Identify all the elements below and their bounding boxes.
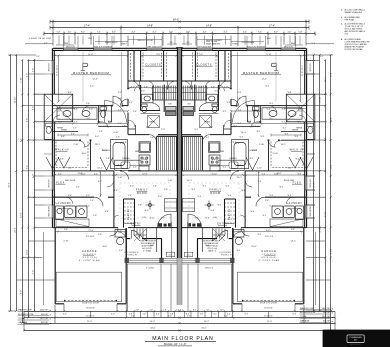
svg-text:MASTER BEDROOM: MASTER BEDROOM (73, 71, 110, 75)
svg-text:13'-10": 13'-10" (14, 96, 16, 103)
svg-text:WALK-IN: WALK-IN (290, 149, 304, 152)
svg-text:10'-4": 10'-4" (150, 321, 156, 323)
svg-text:WALK-IN: WALK-IN (55, 149, 69, 152)
svg-text:7'-10": 7'-10" (324, 77, 326, 83)
svg-text:20'-2": 20'-2" (14, 227, 16, 233)
svg-text:7'-2": 7'-2" (26, 165, 28, 170)
svg-text:16'-0": 16'-0" (102, 246, 107, 248)
svg-text:5'-4": 5'-4" (131, 315, 135, 317)
svg-text:1'-6": 1'-6" (156, 86, 160, 88)
svg-text:9'-0": 9'-0" (118, 165, 122, 167)
notes top right (341, 8, 370, 51)
label underlines (56, 66, 303, 255)
svg-text:PANTRY: PANTRY (228, 208, 231, 220)
svg-text:CLOSETS: CLOSETS (145, 62, 161, 66)
svg-text:3'-0": 3'-0" (257, 126, 261, 128)
svg-text:◄: ◄ (49, 309, 51, 312)
svg-text:PER PLAN: PER PLAN (345, 18, 355, 21)
svg-text:14'-8": 14'-8" (147, 25, 153, 27)
svg-text:1087 SF: 1087 SF (40, 310, 49, 312)
svg-text:16'x8' O.H. DOOR: 16'x8' O.H. DOOR (260, 302, 277, 304)
svg-text:TOTAL: TOTAL (18, 317, 26, 320)
svg-text:17'-4": 17'-4" (269, 25, 275, 27)
garage door labels (82, 302, 277, 309)
svg-text:16'-8 1/4": 16'-8 1/4" (86, 308, 95, 310)
svg-text:10'-0": 10'-0" (26, 249, 28, 255)
svg-text:5'-0": 5'-0" (168, 86, 172, 88)
svg-text:34'-0": 34'-0" (150, 327, 156, 329)
svg-text:5'-8": 5'-8" (56, 31, 60, 33)
svg-text:2'-0": 2'-0" (186, 31, 190, 33)
svg-text:2'-6": 2'-6" (265, 200, 269, 202)
window labels top (29, 38, 294, 49)
svg-text:2'-8": 2'-8" (146, 127, 150, 129)
svg-text:NOTED PER DETAIL: NOTED PER DETAIL (345, 48, 363, 51)
svg-text:4'-2": 4'-2" (202, 31, 206, 33)
svg-text:16'-8 1/2": 16'-8 1/2" (86, 315, 95, 317)
svg-text:3'-0": 3'-0" (98, 126, 102, 128)
svg-text:8'-4": 8'-4" (324, 138, 326, 143)
svg-text:2'-0": 2'-0" (169, 31, 173, 33)
left dim columns (8, 54, 55, 324)
svg-text:1470 SF: 1470 SF (40, 318, 49, 320)
svg-text:13'-10": 13'-10" (318, 97, 320, 104)
svg-text:6'-8": 6'-8" (26, 118, 28, 123)
svg-text:12'-4": 12'-4" (92, 78, 97, 80)
svg-text:7'-2": 7'-2" (329, 165, 331, 170)
svg-text:5'-0": 5'-0" (187, 86, 191, 88)
svg-text:1470 SF: 1470 SF (322, 316, 331, 318)
svg-text:9'-0": 9'-0" (237, 165, 241, 167)
bottom left table (18, 309, 49, 325)
svg-text:2'-8": 2'-8" (211, 86, 215, 88)
svg-text:12'-0": 12'-0" (20, 212, 22, 218)
svg-text:5'-0": 5'-0" (131, 86, 135, 88)
svg-text:21'-0": 21'-0" (267, 321, 273, 323)
svg-text:16'x8' O.H. DOOR: 16'x8' O.H. DOOR (82, 302, 99, 304)
svg-text:PORCH: PORCH (126, 254, 137, 256)
svg-text:11'-6": 11'-6" (276, 173, 281, 175)
black title block (323, 330, 390, 347)
svg-text:64'-0": 64'-0" (173, 18, 179, 21)
left rotated labels (8, 68, 34, 295)
svg-text:8'-0": 8'-0" (81, 31, 85, 33)
svg-text:20'-2": 20'-2" (318, 227, 320, 233)
room labels (55, 62, 303, 261)
right dim columns (306, 54, 333, 331)
svg-text:3050 S.H. EGRESS: 3050 S.H. EGRESS (94, 46, 113, 48)
svg-text:5'-0": 5'-0" (329, 73, 331, 78)
svg-text:34'-0": 34'-0" (312, 182, 314, 188)
left unit (23, 20, 181, 332)
svg-text:(21'8 CLG): (21'8 CLG) (261, 257, 277, 259)
svg-text:16'-8 1/2": 16'-8 1/2" (264, 315, 273, 317)
svg-text:DW: DW (212, 159, 215, 161)
svg-text:FLANAGAN: FLANAGAN (350, 336, 362, 339)
title (145, 336, 216, 346)
svg-text:MAIN FLOOR PLAN: MAIN FLOOR PLAN (152, 336, 214, 342)
svg-text:STAIR LANDING: STAIR LANDING (206, 42, 221, 45)
svg-text:DN: DN (214, 217, 217, 219)
svg-text:5'-4": 5'-4" (224, 315, 228, 317)
svg-text:GARAGE: GARAGE (82, 250, 98, 253)
svg-text:GARAGE: GARAGE (261, 250, 277, 253)
svg-text:4" CONC SLAB: 4" CONC SLAB (258, 259, 279, 262)
svg-text:34'-0": 34'-0" (201, 327, 207, 329)
svg-text:4'-0": 4'-0" (287, 31, 291, 33)
svg-text:3050 S.H. EGRESS: 3050 S.H. EGRESS (247, 46, 266, 48)
svg-text:11'-6": 11'-6" (77, 173, 82, 175)
svg-text:◄: ◄ (49, 313, 51, 316)
svg-text:GARAGE: GARAGE (18, 321, 28, 324)
svg-text:BONUS ROOM: BONUS ROOM (18, 314, 33, 316)
svg-text:◄: ◄ (331, 316, 333, 319)
svg-text:445 SF: 445 SF (323, 320, 331, 322)
svg-text:◄: ◄ (331, 320, 333, 323)
svg-text:4.: 4. (341, 38, 343, 41)
svg-text:OPT 2050 S.H.: OPT 2050 S.H. (198, 46, 212, 48)
svg-text:MAIN FLOOR: MAIN FLOOR (18, 309, 32, 312)
svg-text:FLEX: FLEX (56, 180, 65, 184)
svg-text:MASTER BEDROOM: MASTER BEDROOM (243, 71, 280, 75)
svg-text:LAUNDRY: LAUNDRY (56, 202, 72, 205)
svg-text:3'-6": 3'-6" (32, 106, 34, 111)
svg-text:2850 S.H.: 2850 S.H. (284, 46, 294, 48)
svg-text:14'-8": 14'-8" (206, 25, 212, 27)
svg-text:7'-4": 7'-4" (258, 31, 262, 33)
svg-text:4 3/4x11 7/8 LVL HDR: 4 3/4x11 7/8 LVL HDR (29, 38, 52, 40)
svg-text:16'-8 1/4": 16'-8 1/4" (264, 308, 273, 310)
svg-text:6'-8": 6'-8" (329, 118, 331, 123)
svg-text:445 SF: 445 SF (41, 322, 49, 324)
svg-text:4'-2": 4'-2" (152, 31, 156, 33)
svg-text:LAUNDRY: LAUNDRY (287, 202, 303, 205)
svg-text:(21'8 CLG): (21'8 CLG) (82, 257, 98, 259)
svg-text:SHEAR SCHEDULE: SHEAR SCHEDULE (345, 11, 363, 14)
svg-text:2'-6": 2'-6" (90, 200, 94, 202)
svg-text:TOTAL: TOTAL (300, 315, 308, 318)
svg-text:4'-6": 4'-6" (168, 315, 172, 317)
svg-text:21'-0": 21'-0" (87, 321, 93, 323)
svg-text:5'-4": 5'-4" (64, 229, 68, 231)
svg-text:1087 SF: 1087 SF (322, 308, 331, 310)
svg-text:2.: 2. (341, 17, 343, 19)
svg-text:16'-0": 16'-0" (251, 246, 256, 248)
svg-text:8'-0": 8'-0" (274, 31, 278, 33)
svg-text:DESIGN BUILD: DESIGN BUILD (350, 344, 362, 346)
right unit (mirrored) (179, 20, 337, 332)
svg-text:3'-0": 3'-0" (32, 174, 34, 179)
svg-text:PANTRY: PANTRY (127, 208, 130, 220)
svg-text:2'-8": 2'-8" (209, 127, 213, 129)
svg-text:OPT 2050 S.H.: OPT 2050 S.H. (147, 46, 161, 48)
flat clg note (206, 40, 221, 46)
svg-text:5'-8": 5'-8" (298, 31, 302, 33)
svg-text:17'-4": 17'-4" (84, 25, 90, 27)
svg-text:DW: DW (143, 159, 146, 161)
svg-text:1.: 1. (341, 9, 343, 11)
top dim labels (84, 18, 275, 27)
bottom right table (300, 307, 331, 323)
svg-text:3.: 3. (341, 23, 343, 25)
svg-text:1'-6": 1'-6" (199, 86, 203, 88)
right rotated labels (312, 73, 331, 255)
svg-text:34'-0": 34'-0" (8, 182, 10, 188)
svg-text:4'-0": 4'-0" (67, 31, 71, 33)
svg-text:4'-6": 4'-6" (187, 315, 191, 317)
svg-text:◄: ◄ (331, 312, 333, 315)
svg-text:10'-0": 10'-0" (329, 249, 331, 255)
bottom dim labels (86, 315, 273, 329)
svg-text:5'-4": 5'-4" (291, 229, 295, 231)
svg-text:4'-0": 4'-0" (32, 270, 34, 275)
svg-text:6'-4": 6'-4" (243, 31, 247, 33)
svg-text:383 SF: 383 SF (41, 314, 49, 316)
svg-text:6'-0": 6'-0" (20, 290, 22, 295)
svg-text:4'-2": 4'-2" (223, 31, 227, 33)
svg-text:BILT: BILT (354, 339, 357, 341)
svg-text:383 SF: 383 SF (323, 312, 331, 314)
scattered tiny dims left unit (64, 98, 295, 248)
svg-text:6'-4": 6'-4" (112, 31, 116, 33)
svg-text:8'-4": 8'-4" (20, 138, 22, 143)
svg-text:DN: DN (143, 217, 146, 219)
svg-text:4'-2": 4'-2" (131, 31, 135, 33)
svg-text:7'-10": 7'-10" (20, 77, 22, 83)
party wall (176, 48, 183, 305)
svg-text:2'-8": 2'-8" (32, 68, 34, 73)
svg-text:SCALE: 1/4" = 1'-0": SCALE: 1/4" = 1'-0" (164, 342, 187, 346)
svg-text:◄: ◄ (49, 322, 51, 325)
right wall extension stubs (306, 61, 323, 219)
svg-text:5'-0": 5'-0" (26, 73, 28, 78)
svg-text:PORCH: PORCH (221, 254, 232, 256)
svg-text:2'-6": 2'-6" (118, 98, 122, 100)
svg-text:5'-0": 5'-0" (224, 86, 228, 88)
inner dim row y86 (92, 78, 266, 88)
svg-text:2X4: 2X4 (345, 33, 348, 35)
svg-text:2'-6": 2'-6" (237, 98, 241, 100)
svg-text:◄: ◄ (331, 307, 333, 310)
svg-text:GARAGE: GARAGE (300, 319, 310, 322)
svg-text:12'-4": 12'-4" (261, 78, 266, 80)
svg-text:12'-0": 12'-0" (324, 212, 326, 218)
svg-text:◄: ◄ (49, 318, 51, 321)
svg-text:2'-8": 2'-8" (144, 86, 148, 88)
svg-text:10'-4": 10'-4" (204, 321, 210, 323)
svg-text:7'-4": 7'-4" (97, 31, 101, 33)
svg-text:CLOSETS: CLOSETS (196, 62, 212, 66)
svg-text:FLEX: FLEX (293, 180, 302, 184)
svg-text:MAIN FLOOR: MAIN FLOOR (300, 307, 314, 310)
svg-text:BONUS ROOM: BONUS ROOM (300, 312, 315, 314)
svg-text:2850 S.H.: 2850 S.H. (66, 46, 76, 48)
svg-text:4" CONC SLAB: 4" CONC SLAB (79, 259, 100, 262)
